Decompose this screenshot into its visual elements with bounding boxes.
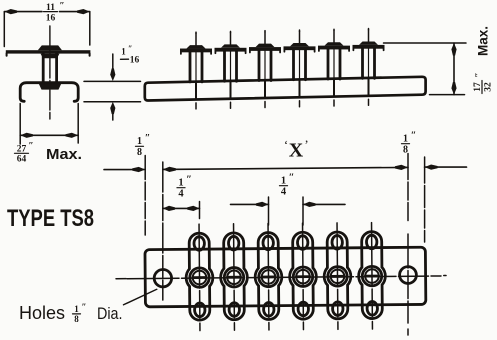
dimension 1/4 first label (178, 175, 192, 200)
terminal 2 outline (plan) (220, 233, 247, 320)
terminal 3 screw head circle (262, 270, 276, 284)
svg-text:4: 4 (281, 187, 287, 198)
dimension 17/32 line (453, 43, 455, 95)
terminal 6 screw washer circle (362, 266, 382, 286)
screw shank left line (end view) (42, 54, 45, 83)
terminal 6 center line (371, 223, 374, 329)
plan view group (127, 222, 442, 331)
screw axis center line (end view) (49, 26, 51, 119)
nut under top plate (end view) (41, 54, 60, 59)
terminal 1 top wire hole (194, 237, 205, 251)
svg-text:1: 1 (281, 176, 286, 187)
terminal 2 top wire hole (228, 236, 239, 250)
dimension 1/16 gap: lower reference line (84, 101, 141, 103)
dimension 1/16 lower arrow (112, 107, 114, 120)
svg-text:″: ″ (128, 44, 132, 53)
plan horizontal center line right dot (444, 275, 446, 277)
dimension 1/4 first (hole to terminal 1) line (163, 207, 200, 209)
svg-text:″: ″ (186, 175, 192, 186)
terminal 2 screw head circle (227, 270, 241, 284)
dimension 27/64 arrow right (65, 133, 78, 138)
terminal 4 center line (302, 223, 305, 329)
svg-text:16: 16 (46, 14, 56, 24)
svg-text:8: 8 (403, 145, 408, 156)
terminal 1 screw washer circle (190, 268, 210, 288)
terminal 3 screw washer circle (259, 267, 279, 287)
terminal 1 bottom wire hole (195, 303, 206, 317)
svg-text:″: ″ (411, 131, 417, 142)
terminal 4 bottom wire hole (298, 302, 309, 316)
terminal 6 screw head circle (365, 269, 379, 283)
left hole center line (162, 162, 164, 300)
terminal 5 bottom wire hole (333, 302, 344, 316)
terminal 5 screw washer circle (328, 267, 348, 287)
dimension 1/8 left label (137, 133, 150, 158)
moulded bar (side view) (145, 77, 426, 101)
nut under channel top (end view) (39, 84, 61, 90)
svg-text:″: ″ (59, 2, 64, 12)
dimension 27/64 Max. label (17, 142, 34, 165)
screw head hump (end view) (38, 45, 62, 50)
screw 2 (side view) (215, 31, 247, 108)
terminal 1 extension tick (199, 202, 201, 219)
svg-text:TYPE TS8: TYPE TS8 (7, 205, 94, 232)
plan horizontal center line left stub (116, 278, 126, 280)
dimension 27/64 line (20, 134, 78, 136)
side elevation view (tilted) (145, 29, 426, 109)
terminal 2 screw washer circle (224, 267, 244, 287)
dimension 1/8 left line (104, 169, 145, 171)
screw 3 (side view) (249, 31, 281, 108)
left mounting hole (154, 269, 172, 287)
terminal 6 screw slot (365, 275, 378, 278)
svg-text:1: 1 (178, 178, 183, 189)
terminal 3 top wire hole (263, 236, 274, 250)
svg-text:1: 1 (403, 134, 408, 145)
screw 6 (side view) (353, 29, 385, 106)
dimension X arrow left (163, 167, 176, 172)
terminal 4 screw head circle (296, 270, 310, 284)
terminal 4 extension line (302, 197, 304, 225)
terminal 4 screw washer circle (293, 267, 313, 287)
dimension 1/4 second label (281, 173, 295, 198)
dimension 11/16 arrow right (77, 9, 90, 14)
terminal 1 screw head circle (193, 271, 207, 285)
right hole center line lower (407, 234, 409, 335)
dimension 17/32 top extension line (384, 42, 467, 44)
dimension 1/16 label (121, 44, 139, 66)
svg-text:8: 8 (137, 147, 142, 158)
svg-text:1: 1 (121, 47, 126, 57)
dimension 1/4 second right line (303, 203, 345, 205)
terminal 5 screw slot (331, 275, 344, 278)
moulded strip outline (plan) (145, 247, 426, 307)
terminal 5 outline (plan) (324, 232, 351, 319)
terminal 2 screw slot (227, 276, 240, 279)
terminal 6 bottom wire hole (367, 302, 378, 316)
terminal 2 center line (233, 224, 236, 330)
dimension 17/32 arrow down (451, 82, 456, 95)
svg-text:Holes: Holes (19, 303, 65, 323)
terminal 5 top wire hole (332, 235, 343, 249)
terminal 1 center line (198, 224, 201, 330)
terminal 4 screw slot (296, 275, 309, 278)
dimension 27/64 arrow left (20, 133, 33, 138)
dimension 11/16 label (46, 2, 65, 24)
leader line to left hole (124, 289, 157, 305)
dimension 11/16 extension line left (3, 12, 5, 47)
mounting channel (end view) (20, 83, 78, 102)
svg-text:32: 32 (484, 82, 494, 92)
svg-text:16: 16 (130, 56, 140, 66)
dimension 1/8 right line (425, 166, 467, 168)
svg-text:″: ″ (475, 72, 485, 77)
svg-text:Max.: Max. (46, 147, 82, 163)
svg-text:1: 1 (74, 304, 79, 314)
right hole center line upper (407, 154, 409, 223)
svg-text:64: 64 (17, 155, 27, 165)
svg-text:″: ″ (82, 302, 87, 312)
dimension 1/16 gap: upper reference line (84, 80, 141, 82)
dimension 11/16 arrow left (4, 9, 17, 14)
terminal 4 outline (plan) (289, 232, 316, 319)
terminal 4 top wire hole (297, 236, 308, 250)
terminal 5 center line (336, 223, 339, 329)
screw 1 (side view) (180, 32, 212, 109)
dimension 11/16 extension line right (89, 12, 91, 45)
svg-text:Dia.: Dia. (97, 304, 123, 323)
terminal 3 bottom wire hole (264, 302, 275, 316)
svg-text:″: ″ (289, 173, 295, 184)
svg-text:″: ″ (28, 142, 33, 152)
terminal 1 screw slot (193, 276, 206, 279)
terminal 5 screw head circle (331, 270, 345, 284)
dimension 27/64 extension line left (19, 104, 21, 145)
right edge extension line (424, 157, 426, 242)
dimension 17/32 Max. label (rotated) (473, 26, 494, 94)
screw shank right line (end view) (55, 54, 58, 83)
terminal 6 outline (plan) (358, 232, 385, 319)
top plate end drops (end view) (6, 53, 8, 55)
terminal 1 outline (plan) (186, 233, 213, 320)
terminal 3 center line (267, 223, 270, 329)
svg-text:1: 1 (137, 136, 142, 147)
horizontal center line (plan) (127, 276, 441, 279)
svg-text:‘: ‘ (284, 137, 288, 152)
svg-text:8: 8 (74, 314, 79, 324)
dimension 1/16 upper arrow (112, 54, 114, 76)
dimension 1/8 right label (403, 131, 416, 156)
svg-text:’: ’ (304, 137, 308, 152)
terminal 3 outline (plan) (255, 232, 282, 319)
left edge extension line (dash-dot) (144, 156, 146, 242)
terminal 2 bottom wire hole (229, 303, 240, 317)
right mounting hole (400, 267, 417, 284)
svg-text:4: 4 (178, 189, 184, 200)
dimension X arrow right (395, 165, 408, 170)
dimension 1/4 second (terminal 3 to 4) left line (231, 203, 269, 205)
svg-text:Max.: Max. (476, 26, 491, 56)
dimension X line (163, 167, 408, 169)
dimension 17/32 arrow up (451, 43, 456, 56)
dimension 11/16 line (4, 11, 90, 13)
dimension 27/64 extension line right (77, 104, 79, 144)
dimension 17/32 bottom extension line (430, 94, 465, 96)
screw top plate (end view) (6, 50, 91, 53)
terminal 3 extension line (268, 197, 270, 225)
svg-text:X: X (289, 140, 304, 162)
svg-text:″: ″ (145, 133, 151, 144)
screw 4 (side view) (284, 30, 316, 107)
screw 5 (side view) (318, 29, 350, 106)
terminal 3 screw slot (262, 276, 275, 279)
terminal 6 top wire hole (366, 235, 377, 249)
